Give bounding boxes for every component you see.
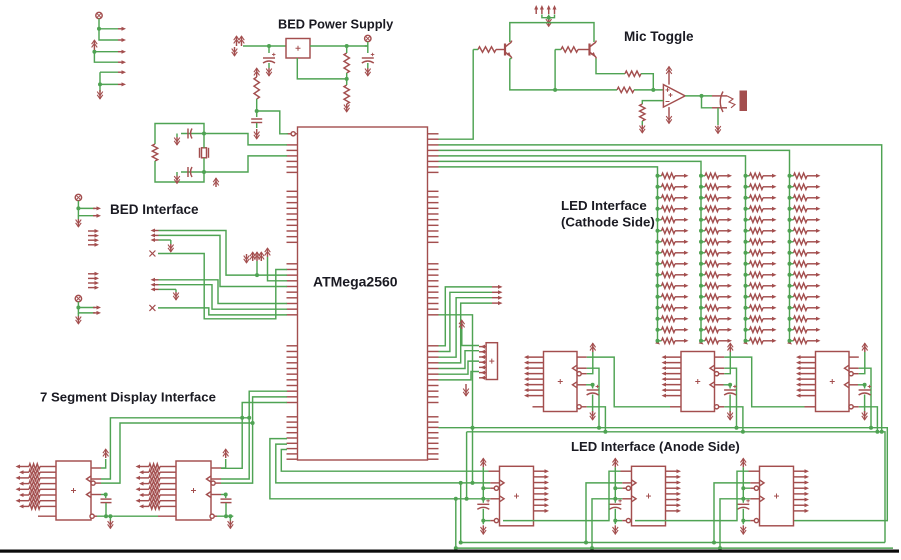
ground arrow: [742, 525, 744, 534]
wire pin: [675, 252, 686, 254]
wire B: [276, 444, 490, 483]
pin wire 3: [40, 477, 56, 479]
junction: [863, 383, 867, 387]
junction c2r11: [699, 284, 703, 288]
wire: [746, 219, 750, 221]
inverted pin: [211, 481, 215, 485]
pin right 17: [428, 241, 439, 243]
pin 4: [479, 361, 486, 363]
wire: [746, 230, 750, 232]
resistor R2: [344, 85, 349, 104]
wire: [460, 483, 462, 543]
capacitor C3: [251, 118, 262, 120]
pin 5: [799, 378, 816, 380]
wire pin: [719, 230, 730, 232]
pin 5: [479, 366, 486, 368]
resistor Rc3r15: [750, 327, 764, 332]
pin SER: [670, 406, 681, 408]
wire: [439, 292, 493, 351]
wire: [510, 23, 594, 42]
clock pin mark: [760, 480, 765, 486]
pin left 9: [287, 196, 298, 198]
pin SER: [749, 470, 760, 472]
wire: [587, 368, 599, 428]
wire: [256, 111, 258, 117]
pin left 21: [287, 280, 298, 282]
pin: [816, 295, 821, 299]
pin 6: [799, 384, 816, 386]
wire net1: [439, 145, 882, 432]
wire pin: [807, 241, 818, 243]
pin 7: [664, 389, 681, 391]
resistor Rc3r8: [750, 250, 764, 255]
pin left 43: [287, 437, 298, 439]
ground arrow: [234, 47, 236, 56]
pin: [853, 373, 859, 375]
wire: [221, 418, 249, 479]
wire: [859, 368, 871, 428]
pin 3: [664, 367, 681, 369]
wire pin: [675, 263, 686, 265]
pin: [728, 207, 733, 211]
resistor Rc1r10: [662, 272, 676, 277]
wire: [658, 274, 662, 276]
pin: [816, 196, 821, 200]
wire: [746, 296, 750, 298]
wire: [203, 158, 205, 172]
wire: [714, 483, 750, 543]
wire: [701, 274, 705, 276]
pin 1: [18, 466, 29, 468]
wire pin: [719, 219, 730, 221]
pin right 41: [428, 426, 439, 428]
wire: [658, 318, 662, 320]
ground arrow: [717, 126, 719, 134]
junction: [454, 546, 458, 550]
pin right 24: [428, 297, 439, 299]
junction: [202, 132, 206, 136]
resistor Rc3r4: [750, 206, 764, 211]
pin right 31: [428, 362, 439, 364]
wire: [615, 467, 622, 488]
pin right 25: [428, 302, 439, 304]
supply arrow: [260, 252, 262, 261]
pin: [816, 262, 821, 266]
inverted pin QH: [210, 514, 214, 518]
resistor Rc2r9: [705, 261, 719, 266]
pin wire 8: [160, 505, 176, 507]
junction c1r16: [656, 339, 660, 343]
pin wire 8: [40, 505, 56, 507]
pin right 45: [428, 448, 439, 450]
column bus arrow 4: [787, 340, 792, 344]
pin wire 5: [40, 488, 56, 490]
resistor: [29, 470, 40, 475]
pin left 33: [287, 373, 298, 375]
wire: [658, 252, 662, 254]
wire: [256, 123, 258, 128]
pin: [684, 262, 689, 266]
pin right 5: [428, 160, 439, 162]
wire: [94, 52, 118, 63]
pin right 6: [428, 166, 439, 168]
junction: [251, 421, 255, 425]
junction c4r7: [788, 240, 792, 244]
wire pin: [719, 285, 730, 287]
junction c2r1: [699, 174, 703, 178]
wire pin: [675, 197, 686, 199]
pin 1: [664, 356, 681, 358]
pin right 27: [428, 314, 439, 316]
junction: [459, 541, 463, 545]
wire: [701, 230, 705, 232]
column bus arrow 2: [699, 340, 704, 344]
junction c3r2: [744, 185, 748, 189]
transistor Q2: [504, 44, 506, 56]
pin QA: [715, 356, 725, 358]
pin right 8: [428, 190, 439, 192]
resistor Rc4r4: [794, 206, 808, 211]
wire: [790, 329, 794, 331]
junction c2r6: [699, 229, 703, 233]
pin: [684, 251, 689, 255]
junction c1r8: [656, 251, 660, 255]
resistor Rc3r11: [750, 283, 764, 288]
wire: [790, 307, 794, 309]
wire: [99, 29, 118, 40]
wire: [724, 407, 743, 432]
pin: [118, 51, 123, 53]
pin left 20: [287, 274, 298, 276]
junction: [481, 497, 485, 501]
resistor Rc2r10: [705, 272, 719, 277]
wire: [701, 340, 705, 342]
pin wire 4: [160, 483, 176, 485]
pin right 30: [428, 356, 439, 358]
wire: [586, 483, 622, 543]
junction c1r5: [656, 218, 660, 222]
junction: [345, 77, 349, 81]
wire: [268, 63, 270, 68]
pin left 29: [287, 350, 298, 352]
wire: [155, 124, 204, 145]
pin: [772, 218, 777, 222]
wire pin: [719, 186, 730, 188]
wire: [496, 49, 499, 51]
wire pin: [807, 252, 818, 254]
pin 4: [22, 483, 30, 485]
pin 2: [799, 362, 816, 364]
pin: [118, 83, 123, 85]
pin left 37: [287, 396, 298, 398]
pin right 35: [428, 384, 439, 386]
pin: [93, 307, 98, 309]
junction c1r10: [656, 273, 660, 277]
junction c1r9: [656, 262, 660, 266]
wire: [176, 134, 178, 138]
resistor: [149, 498, 160, 503]
junction c4r14: [788, 317, 792, 321]
wire: [181, 133, 204, 135]
wire pin: [763, 296, 774, 298]
wire xtal1: [204, 134, 287, 145]
resistor Rc4r8: [794, 250, 808, 255]
pin right 13: [428, 219, 439, 221]
pin left 22: [287, 285, 298, 287]
junction c1r15: [656, 328, 660, 332]
ground arrow: [170, 244, 172, 252]
pin: [118, 28, 123, 30]
wire pin: [675, 307, 686, 309]
junction c4r16: [788, 339, 792, 343]
pin 3: [799, 367, 816, 369]
wire: [78, 308, 95, 313]
junction c3r1: [744, 174, 748, 178]
pin 8: [142, 505, 150, 507]
pin: [728, 284, 733, 288]
svg-text:LED Interface (Anode Side): LED Interface (Anode Side): [571, 439, 740, 454]
junction: [345, 44, 349, 48]
junction: [651, 88, 655, 92]
junction: [104, 493, 108, 497]
wire: [169, 239, 172, 241]
pin left 13: [287, 219, 298, 221]
clock pin mark: [207, 492, 212, 498]
inverted pin: [849, 372, 853, 376]
supply symbol VCC: [365, 35, 371, 41]
wire: [642, 101, 663, 104]
wire: [439, 298, 493, 358]
junction: [718, 546, 722, 550]
junction: [255, 273, 259, 277]
resistor Rc3r6: [750, 228, 764, 233]
capacitor: [221, 498, 232, 500]
wire pin: [807, 296, 818, 298]
wire: [159, 285, 288, 310]
pin: [772, 284, 777, 288]
pin 2: [479, 351, 486, 353]
pin right 42: [428, 432, 439, 434]
wire: [724, 352, 730, 374]
pin OE: [750, 520, 754, 522]
pin wire 7: [40, 500, 56, 502]
pin: [816, 240, 821, 244]
pin left 28: [287, 345, 298, 347]
junction: [108, 514, 112, 518]
wire pin: [807, 329, 818, 331]
wire: [439, 351, 480, 369]
junction c2r7: [699, 240, 703, 244]
pin 2: [142, 471, 150, 473]
pin 7: [666, 504, 679, 506]
pin left 3: [287, 149, 298, 151]
wire: [790, 230, 794, 232]
capacitor: [477, 503, 489, 505]
junction c3r12: [744, 295, 748, 299]
pin 2: [534, 476, 547, 478]
pin RCLK: [750, 498, 759, 500]
junction: [76, 306, 80, 310]
inverted pin: [494, 519, 498, 523]
supply arrow: [668, 67, 670, 76]
wire serial chain: [724, 357, 804, 407]
IC U1 ATMega2560: [298, 127, 428, 460]
junction c4r4: [788, 207, 792, 211]
pin 4: [527, 373, 544, 375]
ground arrow: [176, 137, 178, 145]
wire: [790, 274, 794, 276]
wire pin: [763, 186, 774, 188]
junction: [255, 109, 259, 113]
pin: [719, 373, 725, 375]
pin left 45: [287, 448, 298, 450]
wire: [859, 407, 878, 432]
pin: [684, 240, 689, 244]
svg-text:7 Segment Display Interface: 7 Segment Display Interface: [40, 390, 216, 405]
wire RCLK net: [101, 391, 287, 479]
wire: [221, 423, 253, 483]
junction: [712, 541, 716, 545]
pin 6: [666, 499, 679, 501]
resistor Rc3r12: [750, 294, 764, 299]
wire: [578, 49, 584, 51]
junction: [741, 497, 745, 501]
wire: [724, 368, 736, 428]
resistor R4: [152, 144, 157, 161]
junction c3r11: [744, 284, 748, 288]
resistor R6: [561, 47, 578, 52]
pin left 42: [287, 432, 298, 434]
wire pin: [675, 318, 686, 320]
ground arrow: [176, 176, 178, 184]
clock pin mark: [710, 382, 715, 388]
IC U11 74HC595: [176, 461, 211, 520]
junction c4r6: [788, 229, 792, 233]
ground arrow: [592, 411, 594, 420]
wire: [101, 459, 106, 468]
pin: [728, 295, 733, 299]
pin 1: [479, 346, 486, 348]
wire: [790, 241, 794, 243]
wire: [790, 197, 794, 199]
wire: [724, 384, 731, 386]
wire: [790, 186, 794, 188]
pin net 1: [492, 286, 500, 288]
wire: [78, 302, 95, 308]
wire pin: [807, 197, 818, 199]
junction: [224, 514, 228, 518]
wire pin: [807, 208, 818, 210]
wire: [746, 263, 750, 265]
pin 5: [666, 493, 679, 495]
junction c3r16: [744, 339, 748, 343]
pin left 25: [287, 302, 298, 304]
wire: [746, 274, 750, 276]
resistor Rc4r6: [794, 228, 808, 233]
pin right 2: [428, 144, 439, 146]
pin 2: [527, 362, 544, 364]
junction c2r14: [699, 317, 703, 321]
junction c2r13: [699, 306, 703, 310]
resistor Rc3r13: [750, 305, 764, 310]
pin 7: [138, 500, 149, 502]
pin 1: [794, 470, 807, 472]
resistor Rc1r9: [662, 261, 676, 266]
wire: [615, 509, 622, 521]
supply arrow: [215, 178, 217, 187]
pin: [728, 262, 733, 266]
pin right 39: [428, 416, 439, 418]
supply arrow: [252, 252, 254, 261]
pin right 18: [428, 263, 439, 265]
wire pin: [763, 230, 774, 232]
pin: [118, 71, 123, 73]
pin 8: [794, 510, 807, 512]
pin 5: [664, 378, 681, 380]
pin 7: [479, 377, 486, 379]
pin: [772, 240, 777, 244]
resistor: [149, 504, 160, 509]
pin: [728, 328, 733, 332]
svg-text:ATMega2560: ATMega2560: [313, 274, 398, 290]
wire: [97, 515, 113, 517]
pin: [684, 207, 689, 211]
junction c1r3: [656, 196, 660, 200]
pin: [772, 207, 777, 211]
pin right 36: [428, 390, 439, 392]
inverted pin: [91, 481, 95, 485]
pin: [93, 215, 98, 217]
pin right 3: [428, 149, 439, 151]
pin 4: [799, 373, 816, 375]
wire column bus 2: [700, 176, 702, 342]
resistor Rc1r2: [662, 184, 676, 189]
pin right 32: [428, 367, 439, 369]
wire pin: [763, 318, 774, 320]
wire: [729, 395, 731, 413]
audio jack J1: [720, 92, 723, 113]
junction c1r2: [656, 185, 660, 189]
resistor Rc4r12: [794, 294, 808, 299]
pin: [772, 262, 777, 266]
supply arrow: [592, 343, 594, 352]
junction c2r3: [699, 196, 703, 200]
pin: [772, 339, 777, 343]
wire: [159, 235, 288, 286]
wire pin: [675, 175, 686, 177]
pin SRCLK: [490, 482, 499, 484]
pin 5: [534, 493, 547, 495]
pin: [684, 306, 689, 310]
wire: [746, 175, 750, 177]
junction c4r8: [788, 251, 792, 255]
pin: [728, 174, 733, 178]
clock pin mark: [573, 365, 578, 371]
wire: [864, 395, 866, 413]
pin 8: [22, 505, 30, 507]
wire: [510, 58, 512, 60]
resistor Rc2r12: [705, 294, 719, 299]
pin left 31: [287, 362, 298, 364]
pin: [684, 328, 689, 332]
pin SRCLK: [211, 494, 221, 496]
wire bus2: [467, 432, 885, 543]
pin: [684, 196, 689, 200]
pin 3: [479, 356, 486, 358]
wire: [592, 385, 594, 389]
wire pin: [807, 274, 818, 276]
wire: [790, 252, 794, 254]
